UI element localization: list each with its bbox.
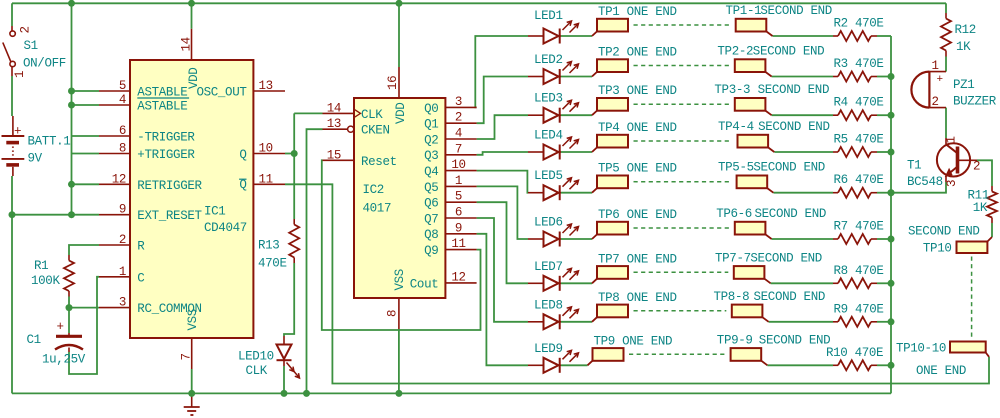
svg-text:LED4: LED4 [534,129,563,143]
svg-text:Q: Q [239,148,246,162]
svg-text:S1: S1 [24,39,38,53]
svg-text:Q6: Q6 [424,197,438,211]
svg-text:13: 13 [327,117,341,131]
svg-text:Q3: Q3 [424,149,438,163]
svg-text:LED7: LED7 [534,260,563,274]
svg-text:+: + [937,74,943,86]
svg-text:Cout: Cout [410,277,439,291]
svg-text:3: 3 [945,180,959,187]
svg-text:TP8-8: TP8-8 [714,290,750,304]
svg-text:VDD: VDD [394,103,408,124]
svg-text:R10 470E: R10 470E [826,346,883,360]
svg-text:2: 2 [973,160,980,174]
svg-text:LED9: LED9 [534,342,563,356]
svg-text:3: 3 [455,95,462,109]
svg-text:R9 470E: R9 470E [834,302,884,316]
svg-text:4: 4 [455,127,462,141]
svg-text:Q7: Q7 [424,212,438,226]
svg-text:CKEN: CKEN [361,124,390,138]
svg-text:Q5: Q5 [424,181,438,195]
svg-text:R8 470E: R8 470E [834,264,884,278]
svg-text:SECOND END: SECOND END [750,251,822,265]
svg-text:5: 5 [455,190,462,204]
svg-text:TP9-9: TP9-9 [717,333,753,347]
svg-text:470E: 470E [258,257,287,271]
svg-text:R2 470E: R2 470E [834,17,884,31]
svg-text:8: 8 [386,310,400,317]
svg-text:RETRIGGER: RETRIGGER [137,179,202,193]
svg-text:R7 470E: R7 470E [834,220,884,234]
svg-text:7: 7 [455,142,462,156]
svg-text:R6 470E: R6 470E [834,173,884,187]
svg-text:R3 470E: R3 470E [834,57,884,71]
svg-text:VDD: VDD [187,68,201,89]
svg-text:PZ1: PZ1 [953,78,974,92]
svg-text:R: R [137,240,145,254]
svg-text:13: 13 [259,79,273,93]
svg-text:3: 3 [119,296,126,310]
svg-text:TP10: TP10 [923,242,952,256]
svg-text:Q9: Q9 [424,244,438,258]
svg-text:+: + [57,320,64,334]
svg-text:+TRIGGER: +TRIGGER [137,148,195,162]
svg-text:LED8: LED8 [534,298,563,312]
svg-text:9: 9 [119,203,126,217]
svg-text:9V: 9V [28,152,43,166]
svg-text:11: 11 [451,237,465,251]
svg-text:LED2: LED2 [534,53,563,67]
svg-text:10: 10 [259,142,273,156]
svg-text:1: 1 [119,265,126,279]
svg-text:TP3 ONE END: TP3 ONE END [598,84,677,98]
svg-text:R13: R13 [258,239,279,253]
svg-text:Q2: Q2 [424,133,438,147]
svg-text:BATT.1: BATT.1 [28,135,71,149]
svg-text:SECOND END: SECOND END [755,207,827,221]
svg-text:14: 14 [327,101,341,115]
svg-text:8: 8 [119,142,126,156]
svg-text:TP6 ONE END: TP6 ONE END [598,208,677,222]
svg-text:TP3-3: TP3-3 [714,83,750,97]
svg-text:SECOND END: SECOND END [758,83,830,97]
svg-text:T1: T1 [907,159,921,173]
svg-text:6: 6 [455,206,462,220]
svg-text:TP4 ONE END: TP4 ONE END [598,121,677,135]
svg-text:1K: 1K [973,201,988,215]
svg-text:EXT_RESET: EXT_RESET [137,209,202,223]
svg-text:16: 16 [386,76,400,90]
svg-text:1: 1 [945,136,959,143]
svg-text:11: 11 [259,172,273,186]
svg-text:ON/OFF: ON/OFF [23,57,66,71]
svg-text:2: 2 [455,111,462,125]
svg-text:12: 12 [112,172,126,186]
svg-text:CLK: CLK [361,108,383,122]
svg-text:IC2: IC2 [363,183,384,197]
svg-text:+: + [14,125,21,139]
svg-text:VSS: VSS [393,269,407,290]
svg-text:LED5: LED5 [534,169,563,183]
svg-text:1: 1 [932,59,939,73]
svg-text:Q1: Q1 [424,118,438,132]
svg-text:R4 470E: R4 470E [834,96,884,110]
svg-text:C: C [137,271,144,285]
svg-text:6: 6 [119,124,126,138]
svg-text:Q8: Q8 [424,228,438,242]
svg-text:TP1-1: TP1-1 [726,4,762,18]
svg-text:TP5-5: TP5-5 [718,161,754,175]
svg-text:VSS: VSS [186,309,200,330]
svg-text:12: 12 [451,270,465,284]
svg-text:LED1: LED1 [534,9,563,23]
svg-text:LED3: LED3 [534,92,563,106]
svg-text:TP2 ONE END: TP2 ONE END [598,46,677,60]
svg-text:Q: Q [239,178,246,192]
svg-text:Q0: Q0 [424,102,438,116]
svg-text:15: 15 [327,148,341,162]
svg-text:R12: R12 [955,23,976,37]
svg-text:SECOND END: SECOND END [754,290,826,304]
svg-text:7: 7 [180,353,194,360]
svg-text:SECOND END: SECOND END [759,333,831,347]
svg-text:SECOND END: SECOND END [753,45,825,59]
svg-text:BC548: BC548 [907,175,943,189]
svg-text:TP7-7: TP7-7 [715,251,751,265]
svg-text:14: 14 [180,37,194,51]
svg-text:TP6-6: TP6-6 [716,207,752,221]
svg-text:CLK: CLK [246,364,268,378]
svg-text:IC1: IC1 [204,205,225,219]
svg-text:R5 470E: R5 470E [834,133,884,147]
svg-text:TP10-10: TP10-10 [896,342,946,356]
svg-text:TP7 ONE END: TP7 ONE END [598,252,677,266]
svg-text:4: 4 [119,93,126,107]
svg-text:ONE END: ONE END [916,364,966,378]
svg-text:2: 2 [932,95,939,109]
svg-text:-TRIGGER: -TRIGGER [137,131,195,145]
svg-text:ASTABLE: ASTABLE [137,100,187,114]
svg-text:SECOND END: SECOND END [760,4,832,18]
svg-text:4017: 4017 [363,202,392,216]
svg-text:BUZZER: BUZZER [953,95,997,109]
svg-text:SECOND END: SECOND END [753,161,825,175]
svg-text:1u,25V: 1u,25V [42,353,86,367]
svg-text:OSC_OUT: OSC_OUT [196,86,247,100]
svg-text:1: 1 [13,71,27,78]
svg-text:5: 5 [119,79,126,93]
svg-text:100K: 100K [31,274,60,288]
svg-text:10: 10 [451,158,465,172]
svg-text:C1: C1 [27,333,41,347]
svg-text:CD4047: CD4047 [204,221,247,235]
svg-text:LED10: LED10 [238,350,274,364]
svg-text:Reset: Reset [361,155,397,169]
svg-text:TP5 ONE END: TP5 ONE END [598,162,677,176]
svg-text:2: 2 [119,233,126,247]
svg-text:TP4-4: TP4-4 [718,120,754,134]
svg-text:Q4: Q4 [424,165,438,179]
svg-text:TP9 ONE END: TP9 ONE END [594,334,673,348]
svg-text:9: 9 [455,221,462,235]
svg-text:R1: R1 [34,259,48,273]
svg-text:LED6: LED6 [534,216,563,230]
svg-text:TP1 ONE END: TP1 ONE END [598,5,677,19]
svg-text:ASTABLE: ASTABLE [137,86,187,100]
svg-text:TP8 ONE END: TP8 ONE END [598,291,677,305]
svg-text:1K: 1K [956,40,971,54]
svg-text:SECOND END: SECOND END [908,225,980,239]
svg-text:SECOND END: SECOND END [758,120,830,134]
svg-text:TP2-2: TP2-2 [717,45,753,59]
svg-text:1: 1 [455,174,462,188]
svg-text:2: 2 [19,26,33,33]
